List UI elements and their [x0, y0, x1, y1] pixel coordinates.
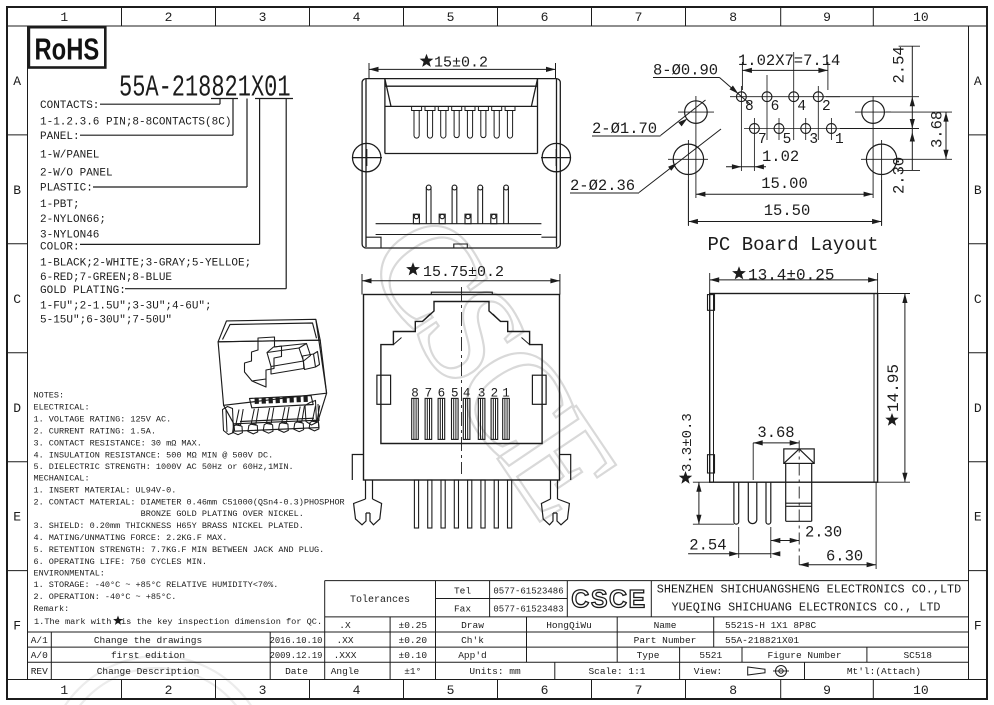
svg-text:±1°: ±1° [404, 666, 421, 677]
svg-text:B: B [13, 183, 21, 198]
svg-text:4. INSULATION RESISTANCE: 500: 4. INSULATION RESISTANCE: 500 MΩ MIN @ 5… [34, 451, 274, 461]
svg-text:2: 2 [165, 683, 173, 698]
svg-text:Remark:: Remark: [34, 604, 70, 614]
svg-text:C: C [13, 292, 21, 307]
svg-text:Angle: Angle [331, 666, 360, 677]
side view of connector [708, 294, 878, 483]
dim 3.68 vertical right [945, 112, 947, 159]
svg-text:D: D [974, 401, 982, 416]
svg-text:HongQiWu: HongQiWu [546, 620, 592, 631]
svg-text:D: D [13, 401, 21, 416]
svg-text:Name: Name [654, 620, 677, 631]
isometric opening steps [245, 337, 320, 387]
svg-text:Figure Number: Figure Number [767, 650, 841, 661]
svg-text:1: 1 [60, 683, 68, 698]
svg-text:A/1: A/1 [31, 635, 48, 646]
svg-text:55A-218821X01: 55A-218821X01 [725, 635, 799, 646]
svg-text:4. MATING/UNMATING FORCE: 2.2K: 4. MATING/UNMATING FORCE: 2.2KG.F MAX. [34, 533, 228, 543]
leader lines from title to legend [211, 98, 238, 100]
svg-text:5-15U";6-30U";7-50U": 5-15U";6-30U";7-50U" [40, 314, 172, 326]
svg-text:REV: REV [31, 666, 48, 677]
isometric 3d view of connector [218, 319, 327, 431]
svg-text:3.3±0.3: 3.3±0.3 [680, 413, 696, 472]
svg-text:1-W/PANEL: 1-W/PANEL [40, 149, 99, 161]
top view mounting ears (circles) [352, 143, 571, 171]
dim 6.30 [799, 564, 876, 566]
svg-text:2-NYLON66;: 2-NYLON66; [40, 214, 106, 226]
svg-text:13.4±0.25: 13.4±0.25 [748, 267, 834, 285]
svg-text:PC Board Layout: PC Board Layout [707, 234, 878, 256]
top view contact fingers [412, 106, 515, 138]
side view shield tab [784, 449, 814, 521]
isometric comb teeth [254, 396, 307, 404]
svg-text:0577-61523486: 0577-61523486 [493, 587, 563, 597]
svg-text:RoHS: RoHS [35, 32, 100, 67]
svg-text:3. SHIELD: 0.20mm THICKNESS H6: 3. SHIELD: 0.20mm THICKNESS H65Y BRASS N… [34, 521, 304, 531]
svg-text:B: B [974, 183, 982, 198]
svg-text:1. INSERT MATERIAL: UL94V-0.: 1. INSERT MATERIAL: UL94V-0. [34, 485, 177, 495]
svg-text:Tel: Tel [454, 586, 471, 597]
svg-text:2. CURRENT RATING: 1.5A.: 2. CURRENT RATING: 1.5A. [34, 427, 156, 437]
svg-text:Date: Date [285, 666, 308, 677]
dim 15+-0.2 [369, 68, 556, 70]
svg-text:Ch'k: Ch'k [461, 635, 484, 646]
svg-text:CSCE: CSCE [571, 586, 646, 614]
dim 15.00 [696, 193, 873, 195]
svg-text:F: F [974, 619, 982, 634]
svg-text:1-PBT;: 1-PBT; [40, 199, 80, 211]
svg-text:14.95: 14.95 [885, 364, 903, 412]
svg-text:is the key inspection dimensio: is the key inspection dimension for QC. [121, 617, 322, 627]
svg-text:10: 10 [913, 683, 929, 698]
svg-text:Mt'l:(Attach): Mt'l:(Attach) [847, 666, 921, 677]
svg-text:1-BLACK;2-WHITE;3-GRAY;5-YELLO: 1-BLACK;2-WHITE;3-GRAY;5-YELLOE; [40, 258, 251, 270]
svg-text:1-FU";2-1.5U";3-3U";4-6U";: 1-FU";2-1.5U";3-3U";4-6U"; [40, 300, 212, 312]
svg-text:A: A [974, 74, 982, 89]
svg-text:Scale: 1:1: Scale: 1:1 [588, 666, 645, 677]
svg-text:CONTACTS:: CONTACTS: [40, 100, 99, 112]
svg-text:4: 4 [353, 683, 361, 698]
hole center lines [668, 96, 902, 225]
svg-text:6: 6 [541, 683, 549, 698]
svg-text:1: 1 [60, 10, 68, 25]
center line (dash-dot) [461, 287, 463, 474]
svg-text:C: C [974, 292, 982, 307]
svg-text:3-NYLON46: 3-NYLON46 [40, 229, 99, 241]
8 pin holes [737, 92, 837, 134]
top view of connector [362, 79, 560, 248]
svg-text:Units: mm: Units: mm [469, 666, 521, 677]
dim 15.75+-0.2 [362, 280, 560, 282]
svg-text:2.30: 2.30 [805, 524, 842, 542]
svg-text:1.02: 1.02 [762, 148, 799, 166]
svg-text:5521S-H 1X1 8P8C: 5521S-H 1X1 8P8C [725, 620, 817, 631]
svg-text:3.68: 3.68 [929, 111, 947, 148]
svg-text:2009.12.19: 2009.12.19 [270, 651, 323, 661]
svg-text:2-Ø2.36: 2-Ø2.36 [570, 177, 635, 195]
svg-text:4: 4 [797, 99, 806, 115]
svg-text:0577-61523483: 0577-61523483 [493, 605, 563, 615]
svg-text:SHENZHEN SHICHUANGSHENG ELECTR: SHENZHEN SHICHUANGSHENG ELECTRONICS CO.,… [657, 583, 961, 597]
isometric pins [223, 401, 320, 435]
svg-text:GOLD PLATING:: GOLD PLATING: [40, 285, 126, 297]
svg-text:BRONZE GOLD PLATING OVER NICKE: BRONZE GOLD PLATING OVER NICKEL. [34, 509, 304, 519]
svg-text:8-Ø0.90: 8-Ø0.90 [653, 62, 718, 80]
svg-text:PLASTIC:: PLASTIC: [40, 183, 93, 195]
svg-text:E: E [13, 510, 21, 525]
svg-text:15.75±0.2: 15.75±0.2 [423, 264, 504, 281]
svg-text:6: 6 [771, 99, 780, 115]
front view contact pins [412, 398, 419, 439]
svg-text:1-1.2.3.6 PIN;8-8CONTACTS(8C): 1-1.2.3.6 PIN;8-8CONTACTS(8C) [40, 117, 231, 129]
svg-text:SC518: SC518 [903, 650, 932, 661]
svg-text:1.The mark with: 1.The mark with [34, 617, 111, 627]
svg-text:1.02X7=7.14: 1.02X7=7.14 [738, 52, 840, 70]
dim 13.4+-0.25 [710, 279, 878, 281]
svg-text:6-RED;7-GREEN;8-BLUE: 6-RED;7-GREEN;8-BLUE [40, 272, 172, 284]
svg-text:View:: View: [694, 666, 723, 677]
svg-text:Fax: Fax [454, 604, 471, 615]
svg-text:F: F [13, 619, 21, 634]
svg-text:15.00: 15.00 [761, 175, 808, 193]
dim 1.02X7=7.14 [742, 69, 828, 71]
pin hole center lines [730, 52, 843, 171]
svg-text:3. CONTACT RESISTANCE: 30 mΩ M: 3. CONTACT RESISTANCE: 30 mΩ MAX. [34, 439, 202, 449]
dim 3.3+-0.3 vertical left [698, 482, 700, 524]
svg-text:1: 1 [835, 132, 844, 148]
svg-text:A/0: A/0 [31, 650, 48, 661]
svg-text:±0.10: ±0.10 [399, 650, 428, 661]
svg-text:1. VOLTAGE RATING: 125V AC.: 1. VOLTAGE RATING: 125V AC. [34, 415, 172, 425]
svg-text:Part Number: Part Number [634, 635, 697, 646]
svg-text:A: A [13, 74, 21, 89]
svg-text:Draw: Draw [461, 620, 484, 631]
svg-text:9: 9 [823, 683, 831, 698]
dim 3.68 legs [753, 442, 799, 444]
svg-text:first edition: first edition [111, 650, 185, 661]
top view rear posts [366, 185, 556, 248]
svg-text:±0.25: ±0.25 [399, 620, 428, 631]
svg-text:6.30: 6.30 [826, 548, 863, 566]
dim 2.54 vertical right [911, 46, 913, 170]
svg-text:PANEL:: PANEL: [40, 131, 80, 143]
RoHS logo box [29, 27, 105, 67]
front view of connector [364, 292, 560, 480]
projection view symbols [748, 667, 765, 675]
dim 15.50 [688, 221, 881, 223]
svg-text:5. RETENTION STRENGTH: 7.7KG.F: 5. RETENTION STRENGTH: 7.7KG.F MIN BETWE… [34, 545, 325, 555]
svg-text:YUEQING SHICHUANG ELECTRONICS: YUEQING SHICHUANG ELECTRONICS CO., LTD [671, 601, 940, 615]
side view legs [734, 482, 771, 524]
svg-text:3: 3 [259, 683, 267, 698]
svg-text:6. OPERATING LIFE: 750 CYCLES: 6. OPERATING LIFE: 750 CYCLES MIN. [34, 557, 207, 567]
svg-text:3: 3 [809, 132, 818, 148]
svg-text:NOTES:: NOTES: [34, 390, 65, 400]
dim 2.30 vertical right [910, 132, 915, 142]
dim 2.54 legs [688, 553, 771, 555]
svg-text:15.50: 15.50 [764, 202, 811, 220]
svg-text:App'd: App'd [458, 650, 487, 661]
svg-text:Tolerances: Tolerances [350, 594, 410, 606]
svg-text:2-Ø1.70: 2-Ø1.70 [592, 120, 657, 138]
svg-text:3: 3 [259, 10, 267, 25]
svg-text:2.54: 2.54 [891, 46, 909, 83]
svg-text:7: 7 [635, 10, 643, 25]
svg-text:15±0.2: 15±0.2 [434, 55, 488, 72]
svg-text:8: 8 [729, 10, 737, 25]
svg-text:3.68: 3.68 [757, 424, 794, 442]
svg-text:55A-218821X01: 55A-218821X01 [119, 71, 291, 106]
svg-text:Change the drawings: Change the drawings [94, 635, 202, 646]
front view bottom legs [352, 455, 570, 525]
svg-text:.X: .X [339, 620, 351, 631]
top view cavity bottom line [385, 153, 538, 155]
svg-text:2. CONTACT MATERIAL: DIAMETER: 2. CONTACT MATERIAL: DIAMETER 0.46mm C51… [34, 498, 345, 508]
svg-text:2: 2 [165, 10, 173, 25]
svg-text:ENVIRONMENTAL:: ENVIRONMENTAL: [34, 569, 105, 579]
svg-text:8: 8 [729, 683, 737, 698]
watermark [46, 186, 647, 705]
svg-text:5521: 5521 [699, 650, 722, 661]
dim 2.30 [771, 540, 799, 542]
dim 14.95 vertical [904, 294, 906, 483]
svg-text:5. DIELECTRIC STRENGTH: 1000V: 5. DIELECTRIC STRENGTH: 1000V AC 50Hz or… [34, 462, 294, 472]
svg-text:Type: Type [637, 650, 660, 661]
svg-text:6: 6 [541, 10, 549, 25]
svg-text:9: 9 [823, 10, 831, 25]
svg-text:2.54: 2.54 [689, 537, 726, 555]
svg-text:MECHANICAL:: MECHANICAL: [34, 473, 90, 483]
svg-text:2-W/O PANEL: 2-W/O PANEL [40, 168, 113, 180]
svg-text:2. OPERATION: -40°C ~ +85°C.: 2. OPERATION: -40°C ~ +85°C. [34, 592, 177, 602]
front view 8 solder pins [414, 480, 418, 528]
svg-text:2016.10.10: 2016.10.10 [270, 636, 323, 646]
svg-text:COLOR:: COLOR: [40, 242, 80, 254]
svg-text:5: 5 [783, 132, 792, 148]
svg-text:5: 5 [447, 10, 455, 25]
dim 1.02 [726, 166, 766, 168]
svg-text:1. STORAGE: -40°C ~ +85°C RELA: 1. STORAGE: -40°C ~ +85°C RELATIVE HUMID… [34, 580, 279, 590]
svg-text:7: 7 [758, 132, 767, 148]
svg-text:.XXX: .XXX [334, 650, 357, 661]
svg-text:2.30: 2.30 [891, 157, 909, 194]
svg-text:2: 2 [822, 99, 831, 115]
svg-text:.XX: .XX [336, 635, 353, 646]
title block tables [28, 581, 969, 680]
svg-text:Change Description: Change Description [97, 666, 200, 677]
svg-text:10: 10 [913, 10, 929, 25]
svg-text:E: E [974, 510, 982, 525]
svg-text:4: 4 [353, 10, 361, 25]
svg-text:±0.20: ±0.20 [399, 635, 428, 646]
svg-text:ELECTRICAL:: ELECTRICAL: [34, 402, 90, 412]
svg-text:5: 5 [447, 683, 455, 698]
mounting holes [673, 101, 897, 175]
svg-text:7: 7 [635, 683, 643, 698]
